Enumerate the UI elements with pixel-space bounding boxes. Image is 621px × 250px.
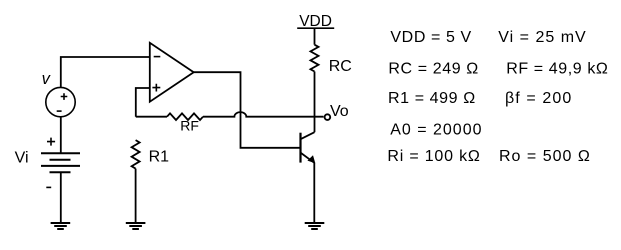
wire from battery to ground <box>60 172 62 222</box>
op-amp U1 <box>150 43 194 102</box>
svg-text:Vi = 25 mV: Vi = 25 mV <box>498 29 586 46</box>
wire from source bottom to battery <box>60 117 62 153</box>
voltage source v <box>46 87 75 116</box>
svg-text:RF = 49,9 kΩ: RF = 49,9 kΩ <box>506 61 608 78</box>
parameters text line 2 <box>388 61 608 78</box>
battery Vi <box>41 138 80 188</box>
svg-text:Vi: Vi <box>15 149 29 166</box>
svg-text:βf = 200: βf = 200 <box>505 90 572 107</box>
wire RC down through Vo node to collector <box>314 72 316 133</box>
ground (under battery) <box>51 223 71 229</box>
svg-text:Vo: Vo <box>330 103 349 120</box>
svg-text:Ri = 100 kΩ: Ri = 100 kΩ <box>387 148 480 165</box>
ground (under transistor emitter) <box>305 223 325 229</box>
wire R1 to ground <box>135 169 137 223</box>
wire VDD to RC <box>314 28 316 45</box>
svg-text:A0 = 20000: A0 = 20000 <box>390 122 482 139</box>
wire from source v up and right to op-amp inverting input <box>61 57 150 88</box>
ground (under R1) <box>126 223 146 229</box>
svg-text:RF: RF <box>180 118 199 134</box>
wire op-amp non-inverting input to node <box>136 88 150 117</box>
resistor RF <box>167 113 203 120</box>
parameters text line 5 <box>387 148 590 165</box>
svg-text:R1: R1 <box>149 148 170 165</box>
resistor RC <box>311 45 319 72</box>
svg-text:VDD = 5 V: VDD = 5 V <box>390 29 471 46</box>
wire op-amp output down to transistor base <box>194 72 300 148</box>
svg-text:RC = 249 Ω: RC = 249 Ω <box>388 61 478 78</box>
power VDD <box>297 13 334 30</box>
wire emitter to ground <box>313 163 315 223</box>
parameters text line 1 <box>390 29 586 46</box>
node Vo (output terminal) <box>325 114 331 120</box>
wire node to RF <box>136 116 167 118</box>
svg-text:R1 = 499 Ω: R1 = 499 Ω <box>388 90 476 107</box>
parameters text line 4 <box>390 122 482 139</box>
wire RF to Vo with hop over output wire <box>203 112 324 117</box>
svg-text:Ro = 500 Ω: Ro = 500 Ω <box>499 148 591 165</box>
svg-text:VDD: VDD <box>299 13 332 30</box>
parameters text line 3 <box>388 90 572 107</box>
transistor Q1 <box>301 132 316 163</box>
svg-text:RC: RC <box>329 58 352 75</box>
resistor R1 <box>132 140 140 169</box>
